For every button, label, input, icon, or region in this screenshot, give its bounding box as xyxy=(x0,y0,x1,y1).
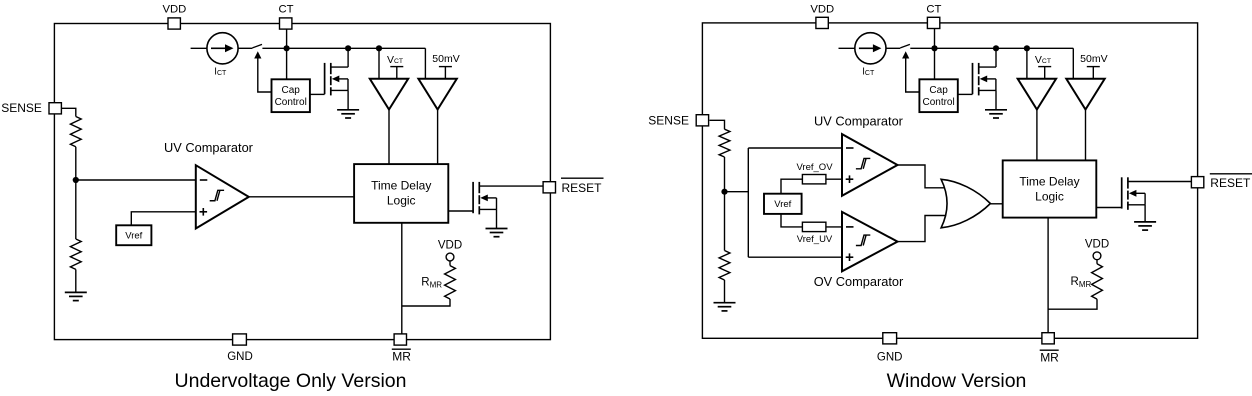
svg-text:VDD: VDD xyxy=(810,4,834,16)
wire SENSE pin to divider (right) xyxy=(710,120,725,129)
svg-text:Cap: Cap xyxy=(929,85,948,96)
wire Vref to Vref_OV resistor xyxy=(781,179,802,194)
comparator VCT (right) xyxy=(1018,79,1056,110)
svg-text:UV Comparator: UV Comparator xyxy=(814,114,904,129)
pin CT (right) xyxy=(927,17,939,28)
node divider tap (right) xyxy=(721,189,727,195)
resistor RMR (left) xyxy=(445,266,456,299)
wire VCT comparator output to Time Delay Logic (right) xyxy=(1036,110,1038,161)
node CT rail xyxy=(284,45,290,51)
resistor Vref_UV xyxy=(802,222,826,231)
wire divider to tap node xyxy=(75,147,77,180)
svg-text:SENSE: SENSE xyxy=(1,101,42,115)
switch cap switch (right) xyxy=(900,44,910,48)
wire CT node to VCT comparator rail (right) xyxy=(935,47,1074,49)
resistor RMR (right) xyxy=(1092,264,1103,299)
pin RESET (right) xyxy=(1191,177,1203,188)
wire from current source to switch xyxy=(238,47,252,49)
wire Time Delay Logic to MR pin xyxy=(401,223,403,334)
wire rail to VCT comparator input (right) xyxy=(1026,48,1028,79)
pin GND (right) xyxy=(883,333,897,344)
block Vref (right) xyxy=(764,194,802,214)
pin VDD (left) xyxy=(168,18,180,29)
resistor R divider top (left) xyxy=(70,117,81,147)
wire CT node to VCT comparator rail xyxy=(287,47,426,49)
svg-text:Undervoltage Only Version: Undervoltage Only Version xyxy=(175,370,407,392)
op-amp comparator UV xyxy=(196,165,249,228)
resistor Vref_OV xyxy=(802,175,826,184)
current source ICT (right) xyxy=(855,33,886,64)
hysteresis symbol of UV xyxy=(210,190,224,200)
wire from switch to CT node xyxy=(262,47,286,49)
wire source of Q2 to ground (right) xyxy=(1144,205,1146,222)
wire tap to UV comparator minus input xyxy=(76,179,196,181)
OR gate xyxy=(941,179,990,228)
wire stub into current source xyxy=(191,47,207,49)
resistor R divider bottom (left) xyxy=(70,239,81,269)
switch cap switch xyxy=(252,44,262,48)
hysteresis symbol of UV (right) xyxy=(856,158,870,168)
wire Time Delay Logic to MR pin (right) xyxy=(1047,218,1049,333)
ground (divider) xyxy=(65,292,87,300)
svg-text:Control: Control xyxy=(922,97,954,108)
wire lower resistor to ground (right) xyxy=(724,280,726,303)
wire Time Delay Logic to output FET gate (right) xyxy=(1096,207,1121,209)
wire bus to OV comparator plus input xyxy=(748,256,842,258)
reference input bar of 50mV (right) xyxy=(1087,67,1100,79)
right diagram: device outline box xyxy=(702,23,1197,338)
wire RMR to MR net xyxy=(403,299,451,306)
op-amp comparator OV (right) xyxy=(842,212,898,271)
pin SENSE (right) xyxy=(696,115,708,126)
control arrow cap control to switch xyxy=(257,56,259,58)
reference input bar of 50mV xyxy=(439,67,452,79)
svg-text:CT: CT xyxy=(278,4,293,16)
wire UV comparator output to OR gate xyxy=(896,165,946,188)
svg-text:Vref_OV: Vref_OV xyxy=(796,162,833,173)
block Time Delay Logic xyxy=(354,164,448,223)
plus input sign of OV (right) xyxy=(846,253,854,261)
wire rail to 50mV comparator input (right) xyxy=(1072,48,1074,79)
transistor Q1 (CT discharge) xyxy=(325,63,349,96)
wire CT pin to Cap Control (right) xyxy=(934,29,936,79)
wire Vref_OV resistor to UV comparator plus input xyxy=(826,178,842,180)
wire bus to UV comparator minus input xyxy=(748,147,842,149)
svg-text:Vref_UV: Vref_UV xyxy=(797,234,833,245)
wire RMR to MR net (right) xyxy=(1048,299,1097,309)
wire Cap Control to switch arrow xyxy=(258,58,272,92)
pin SENSE (left) xyxy=(49,103,61,114)
wire Time Delay Logic to output FET gate xyxy=(448,210,473,212)
left diagram: device outline box xyxy=(54,24,550,340)
comparator 50mV (right) xyxy=(1066,79,1104,110)
transistor Q2 (RESET driver, right) xyxy=(1122,177,1192,210)
svg-text:Logic: Logic xyxy=(387,194,416,208)
svg-text:Time Delay: Time Delay xyxy=(371,179,431,193)
pin GND (left) xyxy=(233,334,247,345)
pin RESET (left) xyxy=(543,182,555,193)
svg-text:RESET: RESET xyxy=(562,181,603,195)
wire drain of Q1 to rail (right) xyxy=(995,48,997,67)
reference input bar of VCT xyxy=(390,67,403,79)
wire source of Q1 to ground xyxy=(347,90,349,109)
pin CT (left) xyxy=(280,18,292,29)
wire stub into current source (right) xyxy=(839,47,855,49)
block Cap Control xyxy=(272,79,310,112)
terminal VDD pull-up (right) xyxy=(1093,252,1101,260)
resistor R divider top (right) xyxy=(719,129,730,157)
minus input sign of UV (right) xyxy=(846,147,854,149)
svg-text:Vref: Vref xyxy=(774,199,791,210)
wire VDD terminal to RMR xyxy=(449,261,451,266)
svg-text:CT: CT xyxy=(926,4,941,16)
transistor Q1 (CT discharge, right) xyxy=(973,63,997,96)
wire VDD terminal to RMR (right) xyxy=(1096,260,1098,264)
node CT rail (right) xyxy=(931,45,937,51)
wire tap to lower divider resistor (right) xyxy=(724,192,726,251)
pin MR (left) xyxy=(394,334,406,345)
wire Vref_UV resistor to OV comparator minus input xyxy=(826,226,842,228)
wire OV comparator output to OR gate xyxy=(896,216,946,242)
svg-text:OV Comparator: OV Comparator xyxy=(814,274,904,289)
comparator 50mV xyxy=(418,79,456,110)
svg-text:MR: MR xyxy=(1040,351,1059,365)
ground (Q2 source) xyxy=(486,229,508,237)
plus input sign of UV (right) xyxy=(846,175,854,183)
node VCT comparator input xyxy=(376,45,382,51)
ground (Q1 source, right) xyxy=(985,110,1007,118)
wire OR gate output to Time Delay Logic (right) xyxy=(990,203,1002,205)
wire comparator bus vertical xyxy=(747,148,749,257)
minus input sign of UV xyxy=(200,179,208,181)
ground (divider, right) xyxy=(714,303,736,311)
wire lower resistor to ground xyxy=(75,269,77,292)
hysteresis symbol of OV (right) xyxy=(856,235,870,245)
wire divider to tap node (right) xyxy=(724,157,726,192)
control arrow cap control to switch (right) xyxy=(905,56,907,58)
svg-text:GND: GND xyxy=(227,351,253,363)
wire CT pin to Cap Control xyxy=(286,29,288,79)
svg-text:Logic: Logic xyxy=(1035,190,1064,204)
block Vref xyxy=(116,225,151,245)
svg-text:Time Delay: Time Delay xyxy=(1019,175,1079,189)
wire from current source to switch (right) xyxy=(886,47,900,49)
svg-text:GND: GND xyxy=(877,352,903,364)
svg-text:Control: Control xyxy=(275,97,307,108)
block Time Delay Logic (right) xyxy=(1003,160,1097,217)
node mosfet drain xyxy=(345,45,351,51)
comparator VCT xyxy=(370,79,408,110)
reference input bar of VCT (right) xyxy=(1038,67,1051,79)
wire UV comparator output to Time Delay Logic xyxy=(249,196,354,198)
terminal VDD pull-up (left) xyxy=(446,253,454,261)
wire 50mV comparator output to Time Delay Logic xyxy=(437,110,439,165)
svg-text:Vref: Vref xyxy=(125,231,142,242)
op-amp comparator UV (right) xyxy=(842,134,898,196)
svg-text:RESET: RESET xyxy=(1210,176,1251,190)
svg-text:VDD: VDD xyxy=(438,240,462,252)
svg-text:UV Comparator: UV Comparator xyxy=(164,140,254,155)
plus input sign of UV xyxy=(200,208,208,216)
svg-text:50mV: 50mV xyxy=(432,53,459,65)
ground (Q1 source) xyxy=(337,110,359,118)
wire Cap Control to switch arrow (right) xyxy=(906,58,920,92)
wire source of Q1 to ground (right) xyxy=(995,90,997,109)
node divider tap xyxy=(73,177,79,183)
wire VCT comparator output to Time Delay Logic xyxy=(388,110,390,165)
wire source of Q2 to ground xyxy=(496,209,498,228)
svg-text:MR: MR xyxy=(392,350,411,364)
wire tap to comparator bus xyxy=(725,191,749,193)
wire Vref to Vref_UV resistor xyxy=(781,214,802,227)
minus input sign of OV (right) xyxy=(846,226,854,228)
current source ICT xyxy=(207,33,238,64)
svg-text:VDD: VDD xyxy=(162,4,186,16)
wire Cap Control output to discharge FET gate xyxy=(310,93,325,95)
svg-text:Cap: Cap xyxy=(282,85,301,96)
wire rail to 50mV comparator input xyxy=(424,48,426,79)
pin MR (right) xyxy=(1042,333,1054,344)
svg-text:VDD: VDD xyxy=(1085,239,1109,251)
wire from switch to CT node (right) xyxy=(910,47,934,49)
block Cap Control (right) xyxy=(919,79,957,112)
pin VDD (right) xyxy=(816,17,828,28)
transistor Q2 (RESET driver) xyxy=(473,182,543,215)
wire tap to lower divider resistor xyxy=(75,180,77,239)
ground (Q2 source, right) xyxy=(1134,222,1156,230)
wire SENSE pin to divider xyxy=(62,108,76,116)
wire drain of Q1 to rail xyxy=(347,48,349,67)
node VCT comparator input (right) xyxy=(1024,45,1030,51)
wire Vref to UV comparator plus input xyxy=(131,212,196,226)
resistor R divider bottom (right) xyxy=(719,251,730,281)
wire Cap Control output to discharge FET gate (right) xyxy=(958,93,973,95)
node mosfet drain (right) xyxy=(993,45,999,51)
svg-text:SENSE: SENSE xyxy=(648,114,689,128)
svg-text:50mV: 50mV xyxy=(1080,53,1107,65)
wire rail to VCT comparator input xyxy=(378,48,380,79)
svg-text:Window Version: Window Version xyxy=(887,370,1027,392)
wire 50mV comparator output to Time Delay Logic (right) xyxy=(1085,110,1087,161)
